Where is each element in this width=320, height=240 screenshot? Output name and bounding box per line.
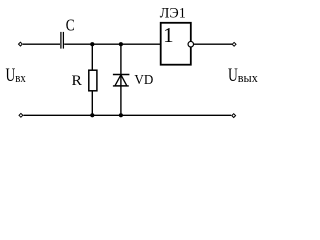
resistor R xyxy=(89,70,97,91)
wire capacitor to logic element xyxy=(64,43,161,45)
capacitor C xyxy=(61,32,64,49)
svg-text:C: C xyxy=(66,16,75,35)
terminal (bottom right) xyxy=(232,114,236,118)
wire VD branch xyxy=(120,44,122,115)
node junction R top xyxy=(90,42,94,46)
svg-text:ЛЭ1: ЛЭ1 xyxy=(160,6,186,22)
node junction R bottom xyxy=(90,113,94,117)
wire bottom rail xyxy=(23,114,231,116)
diode VD cathode bar xyxy=(113,74,129,76)
ground rail terminal (bottom left) xyxy=(19,113,23,117)
node junction VD top xyxy=(119,42,123,46)
diode VD base line xyxy=(113,85,129,87)
wire output xyxy=(194,43,232,45)
diode VD triangle xyxy=(115,75,127,86)
svg-text:R: R xyxy=(72,73,82,89)
wire R branch lower xyxy=(91,91,93,116)
wire R branch upper xyxy=(91,44,93,70)
svg-text:1: 1 xyxy=(163,23,174,47)
inversion bubble xyxy=(188,41,194,47)
op-amp U1 logic element box xyxy=(161,23,191,65)
output terminal (top right) xyxy=(232,42,236,46)
svg-text:VD: VD xyxy=(134,73,153,88)
input terminal (top left) xyxy=(19,42,23,46)
wire input to capacitor xyxy=(23,43,60,45)
node junction VD bottom xyxy=(119,113,123,117)
